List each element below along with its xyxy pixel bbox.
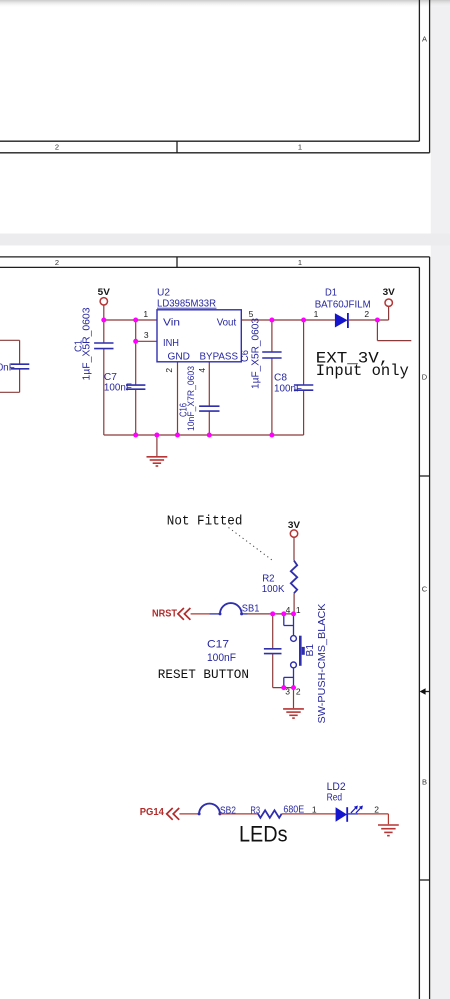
svg-text:Vin: Vin	[163, 318, 180, 329]
svg-text:D1: D1	[325, 288, 337, 299]
svg-text:100K: 100K	[262, 584, 285, 595]
svg-text:2: 2	[296, 687, 301, 697]
svg-text:1: 1	[312, 805, 317, 815]
svg-text:BYPASS: BYPASS	[200, 352, 239, 363]
svg-text:2: 2	[55, 143, 59, 152]
svg-text:C17: C17	[207, 639, 229, 651]
svg-text:4: 4	[286, 605, 291, 615]
svg-text:3V: 3V	[383, 287, 396, 298]
svg-text:2: 2	[55, 258, 59, 267]
svg-text:1: 1	[298, 143, 302, 152]
svg-text:GND: GND	[168, 352, 191, 363]
svg-text:5V: 5V	[98, 287, 111, 298]
svg-text:5: 5	[249, 309, 254, 319]
svg-text:LEDs: LEDs	[239, 821, 288, 846]
svg-text:3: 3	[144, 330, 149, 340]
svg-text:SB2: SB2	[220, 805, 236, 816]
svg-text:1µF_X5R_0603: 1µF_X5R_0603	[251, 318, 262, 389]
svg-text:3V: 3V	[288, 520, 301, 531]
svg-text:2: 2	[374, 805, 379, 815]
svg-text:1: 1	[296, 605, 301, 615]
svg-text:SW-PUSH-CMS_BLACK: SW-PUSH-CMS_BLACK	[317, 603, 328, 723]
svg-text:C6: C6	[240, 350, 251, 362]
svg-text:1µF_X5R_0603: 1µF_X5R_0603	[81, 307, 92, 380]
svg-text:Vout: Vout	[217, 318, 237, 329]
svg-text:B1: B1	[305, 644, 316, 657]
svg-text:U2: U2	[157, 288, 170, 299]
svg-text:1: 1	[143, 309, 148, 319]
svg-text:C: C	[422, 585, 428, 594]
svg-text:Not Fitted: Not Fitted	[167, 515, 243, 530]
svg-text:INH: INH	[163, 338, 179, 349]
svg-text:0nF: 0nF	[0, 362, 15, 373]
svg-text:NRST: NRST	[152, 607, 178, 619]
svg-text:PG14: PG14	[140, 806, 164, 818]
svg-text:1: 1	[298, 258, 302, 267]
svg-text:100nF: 100nF	[104, 383, 132, 394]
svg-text:D: D	[422, 373, 428, 382]
svg-text:100nF: 100nF	[274, 384, 302, 395]
svg-text:C8: C8	[274, 372, 287, 383]
svg-text:C7: C7	[104, 372, 117, 383]
svg-text:Input only: Input only	[316, 362, 409, 380]
svg-text:RESET BUTTON: RESET BUTTON	[158, 667, 249, 682]
svg-text:2: 2	[164, 368, 174, 373]
svg-text:SB1: SB1	[242, 604, 260, 615]
svg-text:A: A	[422, 35, 427, 44]
svg-text:4: 4	[197, 368, 207, 373]
svg-text:Red: Red	[327, 793, 343, 804]
svg-text:LD2: LD2	[327, 781, 346, 793]
svg-text:10nF_X7R_0603: 10nF_X7R_0603	[186, 366, 197, 431]
svg-text:BAT60JFILM: BAT60JFILM	[315, 300, 371, 311]
svg-text:B: B	[422, 778, 427, 787]
svg-text:100nF: 100nF	[207, 652, 236, 664]
